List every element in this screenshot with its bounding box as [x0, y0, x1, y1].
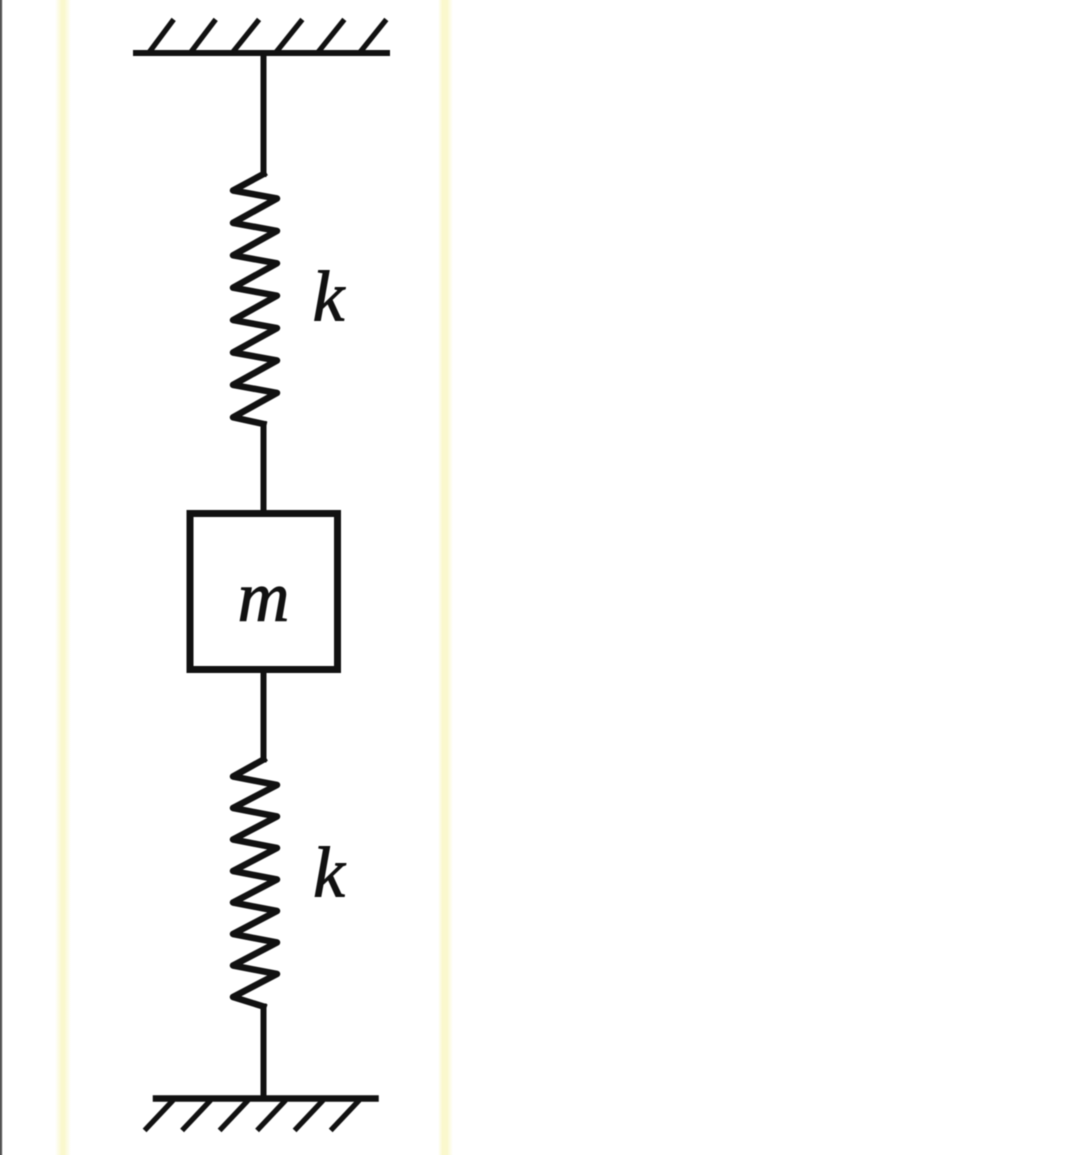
- ceiling hatch 1: [151, 22, 173, 51]
- floor hatch 3: [221, 1102, 246, 1129]
- wire: top spring to mass: [261, 424, 267, 512]
- svg-text:k: k: [313, 257, 347, 337]
- mass box: [190, 514, 338, 670]
- floor hatch 2: [184, 1102, 209, 1129]
- scan artifact: pale yellow stripe (right): [438, 0, 453, 1155]
- scan artifact: dark page-edge line (left): [0, 0, 3, 1155]
- ceiling hatch 5: [320, 22, 343, 51]
- svg-text:k: k: [313, 833, 347, 913]
- wire: bottom spring to floor: [261, 1007, 267, 1097]
- ceiling hatch 6: [362, 22, 385, 51]
- floor hatch 5: [296, 1102, 321, 1129]
- ceiling hatch 2: [193, 22, 215, 51]
- spring k (top): [233, 174, 277, 424]
- svg-text:m: m: [238, 557, 290, 637]
- ceiling hatch 4: [278, 22, 301, 51]
- scan artifact: pale yellow stripe (left): [55, 0, 71, 1155]
- floor hatch 4: [259, 1102, 284, 1129]
- wire: ceiling to top spring: [261, 55, 267, 174]
- floor line: [156, 1095, 376, 1102]
- ceiling hatch 3: [235, 22, 258, 51]
- spring k (bottom): [233, 760, 277, 1007]
- floor hatch 1: [146, 1102, 171, 1129]
- ceiling line: [136, 50, 387, 56]
- wire: mass to bottom spring: [261, 671, 267, 760]
- floor hatch 6: [333, 1102, 358, 1129]
